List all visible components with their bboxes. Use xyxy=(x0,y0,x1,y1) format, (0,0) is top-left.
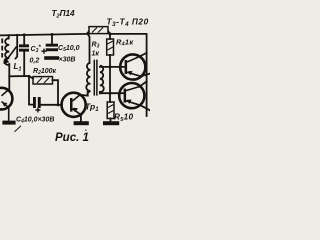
wire right edge vertical xyxy=(146,34,148,116)
wire R4 top lead xyxy=(109,34,111,39)
transistor T3 xyxy=(120,54,145,79)
transformer Tr1 primary winding xyxy=(86,63,90,96)
resistor R2 100k xyxy=(33,77,53,84)
svg-text:R41к: R41к xyxy=(116,38,134,48)
wire coil L1 top lead xyxy=(8,35,10,38)
wire L1 bottom to T1 collector xyxy=(8,64,10,89)
transistor T4 xyxy=(119,83,144,108)
wire C4 right lead to T2 base xyxy=(41,104,62,106)
wire R5 bottom lead xyxy=(110,119,112,122)
ground under R5 xyxy=(103,121,119,125)
svg-text:0,2: 0,2 xyxy=(30,58,40,65)
wire transformer primary top lead xyxy=(88,34,89,63)
wire C5 top lead xyxy=(51,35,53,44)
resistor R4 1k (vertical) xyxy=(107,39,114,55)
transistor T2 xyxy=(62,93,86,117)
ground under T2 xyxy=(74,121,89,125)
wire stub right of L1 xyxy=(16,35,18,58)
ground bar under C5 xyxy=(44,56,59,60)
node base wire of R2 horizontal xyxy=(9,76,33,79)
svg-text:С410,0×30В: С410,0×30В xyxy=(16,117,54,125)
resistor R5 10 (vertical) xyxy=(107,102,114,119)
svg-text:R3: R3 xyxy=(92,42,100,50)
wire T3 base from transformer secondary top xyxy=(100,66,125,68)
wire T3 collector stub xyxy=(140,53,147,57)
svg-text:R2100к: R2100к xyxy=(33,68,57,76)
junction node dots xyxy=(16,32,112,106)
wire T4 emitter to right edge xyxy=(140,105,150,110)
wire R2 right lead down to T2 base xyxy=(53,80,59,105)
ground under T1 xyxy=(2,121,15,125)
wire T2 emitter down xyxy=(80,115,82,122)
transformer Tr1 secondary winding xyxy=(100,66,104,95)
svg-text:R510: R510 xyxy=(114,113,133,123)
scan speck xyxy=(85,129,87,131)
wire C3 bottom lead xyxy=(23,51,25,76)
wire R4 bottom through junctions to R5 xyxy=(109,55,111,102)
stray scan mark bottom left xyxy=(15,126,22,132)
wire T3 emitter to right edge xyxy=(141,74,150,77)
wire T4 collector stub xyxy=(140,81,147,86)
plus sign of C5 xyxy=(41,49,46,54)
svg-text:Т2П14: Т2П14 xyxy=(52,9,76,20)
transistor T1 (clipped at left edge) xyxy=(0,88,12,121)
capacitor C3 0.2 xyxy=(19,44,29,51)
wire C3 top lead xyxy=(23,35,25,45)
plus sign of C4 xyxy=(35,108,40,113)
wire top rail left xyxy=(0,34,86,36)
svg-text:С510,0: С510,0 xyxy=(58,45,80,53)
svg-text:1к: 1к xyxy=(92,51,100,58)
svg-text:Рис. 1: Рис. 1 xyxy=(55,132,89,144)
wire T4 base from transformer secondary bottom xyxy=(100,92,124,94)
svg-text:×30В: ×30В xyxy=(59,57,76,64)
transformer core xyxy=(94,60,97,96)
wire C4 left drop xyxy=(29,76,33,105)
wire top rail right xyxy=(110,33,147,35)
wire T2 collector to transformer xyxy=(80,92,88,96)
capacitor C4 electrolytic with plus xyxy=(33,97,41,108)
inductor L1 with ferrite core and arrow xyxy=(2,38,16,65)
resistor R3 1k (series in rail) xyxy=(87,27,111,34)
capacitor C5 electrolytic with plus xyxy=(46,44,58,52)
